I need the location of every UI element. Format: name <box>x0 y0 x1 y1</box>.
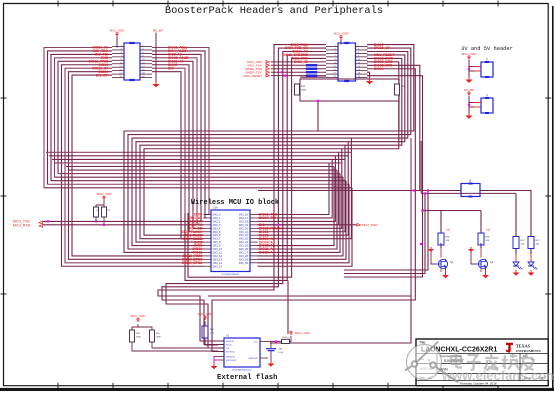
svg-text:DIO_6: DIO_6 <box>213 233 221 237</box>
svg-text:DIO: DIO <box>168 66 174 70</box>
svg-text:DNM: DNM <box>301 90 306 92</box>
svg-text:DNM: DNM <box>156 336 161 338</box>
svg-text:www.elecfans.com: www.elecfans.com <box>441 368 554 383</box>
svg-text:DIO_28: DIO_28 <box>239 254 248 258</box>
svg-text:DIO14_BTN2: DIO14_BTN2 <box>182 261 202 265</box>
svg-text:DIO_3: DIO_3 <box>213 223 221 227</box>
svg-text:DIO_4: DIO_4 <box>213 226 221 230</box>
svg-text:DNM: DNM <box>446 230 451 232</box>
svg-text:DNM: DNM <box>486 230 491 232</box>
svg-text:MX25R8035FZUIL0: MX25R8035FZUIL0 <box>232 370 252 372</box>
svg-text:DIO_23: DIO_23 <box>239 237 248 241</box>
svg-text:Wireless MCU IO block: Wireless MCU IO block <box>191 199 279 207</box>
svg-text:DNM: DNM <box>136 336 141 338</box>
svg-text:DIO_7: DIO_7 <box>213 237 221 241</box>
svg-text:DIO_19: DIO_19 <box>239 223 248 227</box>
svg-text:DIO_20: DIO_20 <box>239 226 248 230</box>
svg-text:MCU_SWO: MCU_SWO <box>362 223 378 227</box>
svg-text:CC26X2F128RGZ: CC26X2F128RGZ <box>221 274 240 276</box>
svg-text:DIO_9: DIO_9 <box>213 244 221 248</box>
svg-text:DIO_10: DIO_10 <box>213 247 222 251</box>
svg-text:DIO_0: DIO_0 <box>213 213 221 217</box>
svg-text:DIO_BP: DIO_BP <box>96 73 109 77</box>
svg-text:BoosterPack Headers and Periph: BoosterPack Headers and Peripherals <box>165 5 383 17</box>
svg-text:DIO_30: DIO_30 <box>239 261 248 265</box>
svg-text:DIO16_CV: DIO16_CV <box>374 46 391 50</box>
svg-text:DIO_17: DIO_17 <box>239 216 248 220</box>
svg-text:DIO_26: DIO_26 <box>239 247 248 251</box>
svg-text:DIO_8: DIO_8 <box>213 240 221 244</box>
svg-text:WP/SIO2: WP/SIO2 <box>226 357 236 359</box>
svg-text:MCU_VDD: MCU_VDD <box>295 331 311 335</box>
svg-text:MCU_RXD: MCU_RXD <box>13 224 31 228</box>
svg-text:DIO_29: DIO_29 <box>239 257 248 261</box>
svg-text:DIO_2: DIO_2 <box>213 219 221 223</box>
svg-text:SO/SIO1: SO/SIO1 <box>226 352 236 354</box>
svg-text:DIO27_A4: DIO27_A4 <box>259 251 275 255</box>
svg-text:DIO_5: DIO_5 <box>213 230 221 234</box>
svg-text:DIO14: DIO14 <box>374 67 384 71</box>
svg-text:WL_BP: WL_BP <box>464 88 474 92</box>
svg-text:DIO_24: DIO_24 <box>239 240 248 244</box>
svg-text:SI/SIO0: SI/SIO0 <box>226 341 234 343</box>
svg-text:DIO_21: DIO_21 <box>239 230 248 234</box>
svg-text:0.1uF: 0.1uF <box>278 352 284 354</box>
svg-text:DIO_11: DIO_11 <box>213 250 222 254</box>
svg-text:VCC: VCC <box>253 342 258 344</box>
svg-text:DIO_22: DIO_22 <box>239 233 248 237</box>
svg-text:RST/SIO3: RST/SIO3 <box>226 360 237 362</box>
svg-text:U1A: U1A <box>213 207 218 210</box>
svg-text:GND/SCF: GND/SCF <box>248 358 259 360</box>
svg-text:MCU_VDD: MCU_VDD <box>110 29 126 33</box>
svg-text:DIO_27: DIO_27 <box>239 250 248 254</box>
svg-text:DIO_12: DIO_12 <box>213 254 222 258</box>
svg-text:MCU_VDD: MCU_VDD <box>462 52 478 56</box>
svg-text:BK_BP: BK_BP <box>153 29 163 33</box>
svg-text:SCLK: SCLK <box>226 345 232 347</box>
svg-text:DIO_13: DIO_13 <box>213 257 222 261</box>
svg-text:MCU_VDD: MCU_VDD <box>131 314 147 318</box>
svg-text:MCU_VDD: MCU_VDD <box>97 192 113 196</box>
svg-text:TEXAS: TEXAS <box>516 344 531 349</box>
svg-text:CS: CS <box>226 348 230 350</box>
svg-text:DIO3_4D: DIO3_4D <box>294 60 308 64</box>
svg-text:DIO_1: DIO_1 <box>213 216 221 220</box>
svg-text:DIO_16: DIO_16 <box>239 213 248 217</box>
svg-text:External flash: External flash <box>217 374 277 382</box>
svg-text:DIO_14: DIO_14 <box>213 261 222 265</box>
svg-text:DIO_25: DIO_25 <box>239 244 248 248</box>
svg-text:3V and 5V header: 3V and 5V header <box>461 46 513 52</box>
svg-text:MCU_VDD: MCU_VDD <box>334 32 350 36</box>
svg-text:DIO17_TDI: DIO17_TDI <box>259 216 276 220</box>
svg-text:R60 0: R60 0 <box>283 337 290 339</box>
svg-text:DIO_15: DIO_15 <box>213 264 222 268</box>
svg-text:INSTRUMENTS: INSTRUMENTS <box>516 349 541 353</box>
svg-text:Title:: Title: <box>419 341 426 345</box>
svg-text:MCU_VDD: MCU_VDD <box>198 312 214 316</box>
svg-text:DIO_18: DIO_18 <box>239 219 248 223</box>
svg-text:MCU_RESET: MCU_RESET <box>243 74 262 78</box>
